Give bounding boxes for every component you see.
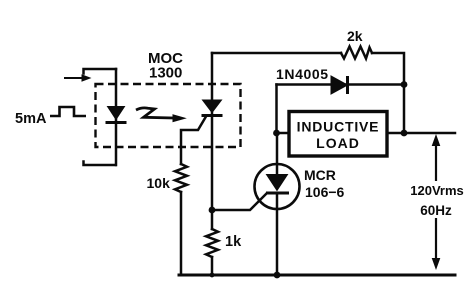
svg-text:1k: 1k [225, 234, 242, 250]
wire photo-SCR gate to 10k [181, 117, 206, 165]
wire 1N4005 anode corner [275, 85, 278, 134]
wire 10k bottom [180, 192, 183, 275]
wire SCR cathode [276, 193, 279, 275]
junction dot load right [401, 130, 408, 137]
wire load right to rail end [387, 132, 455, 135]
SCR MCR106-6 circle [255, 164, 300, 209]
wire top rail to 2k [212, 52, 341, 55]
junction dot diode/2k [401, 81, 408, 88]
wire input top terminal [84, 69, 117, 74]
wire load left [277, 132, 289, 135]
pulse waveform 5mA [50, 107, 86, 116]
input current arrow [64, 74, 92, 82]
resistor 1k zigzag [206, 229, 218, 257]
wire gate of MCR [212, 194, 267, 211]
120V measure arrow [432, 136, 439, 269]
wire right column to load junction [403, 85, 406, 134]
wire 1k bottom [211, 257, 214, 275]
junction dot cathode rail [274, 272, 281, 279]
svg-text:INDUCTIVE: INDUCTIVE [297, 119, 380, 135]
LED emitter diode [106, 107, 127, 123]
load box INDUCTIVE LOAD [289, 112, 387, 157]
optocoupler MOC1300 dashed box [96, 84, 241, 147]
svg-text:2k: 2k [347, 28, 363, 44]
svg-text:1300: 1300 [149, 65, 182, 82]
wire bottom rail [179, 274, 455, 277]
wire diode row [277, 83, 405, 86]
resistor 2k zigzag [341, 47, 372, 59]
wire 2k to right corner [372, 53, 404, 85]
wire LED column [115, 69, 118, 165]
resistor 10k zigzag [175, 164, 187, 192]
svg-text:5mA: 5mA [15, 111, 47, 127]
junction dot gate node [209, 207, 216, 214]
diode 1N4005 [331, 76, 348, 94]
svg-text:LOAD: LOAD [316, 135, 360, 151]
wire photo-SCR column top [211, 53, 214, 229]
photo-SCR detector [202, 100, 223, 116]
svg-text:MCR: MCR [304, 167, 336, 183]
light coupling squiggle arrow [136, 108, 185, 122]
wire input return terminal [84, 162, 116, 166]
svg-text:106−6: 106−6 [305, 184, 345, 200]
junction dot 1k rail [210, 273, 215, 278]
svg-text:120Vrms: 120Vrms [410, 183, 464, 198]
svg-text:10k: 10k [147, 175, 171, 191]
SCR MCR106-6 symbol [266, 175, 289, 194]
wire SCR anode [276, 133, 279, 175]
junction dot load left [273, 130, 280, 137]
svg-text:60Hz: 60Hz [420, 203, 452, 218]
svg-text:1N4005: 1N4005 [276, 66, 329, 82]
